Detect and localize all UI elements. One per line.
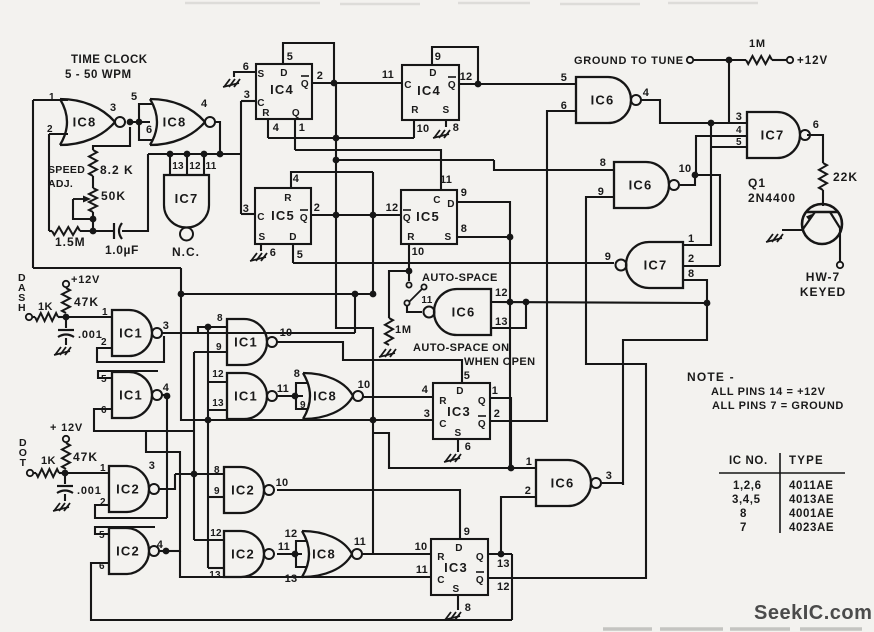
svg-text:Q: Q xyxy=(476,552,484,563)
svg-text:10: 10 xyxy=(358,379,371,391)
nor gate IC8 (pins 5,6 out 4) xyxy=(150,99,157,145)
ground dash cap xyxy=(54,347,71,355)
node osc RC node xyxy=(90,228,97,235)
wire Q to bottom rail xyxy=(511,554,513,620)
flip-flop IC5 left xyxy=(255,188,311,244)
switch contact arm xyxy=(421,284,426,289)
svg-text:13: 13 xyxy=(172,161,184,172)
ground 1M xyxy=(379,349,396,357)
wire mid vertical x373 xyxy=(372,172,374,296)
svg-text:13: 13 xyxy=(497,558,510,570)
svg-text:Q1: Q1 xyxy=(748,176,766,190)
svg-text:1: 1 xyxy=(102,307,108,318)
svg-text:2: 2 xyxy=(314,202,321,214)
wire tune to node xyxy=(693,59,729,61)
node IC1b out xyxy=(164,393,171,400)
svg-text:S: S xyxy=(454,428,461,439)
svg-text:4: 4 xyxy=(273,122,280,134)
svg-text:8.2 K: 8.2 K xyxy=(100,163,134,177)
nand gate IC7 (pins 3,4,5 out 6) xyxy=(747,112,800,158)
wire out to x720 xyxy=(695,175,720,266)
wire IC8c in bracket xyxy=(296,383,308,409)
wire oscillator bottom xyxy=(33,267,181,269)
svg-text:R: R xyxy=(262,108,270,119)
svg-text:8: 8 xyxy=(688,268,695,280)
svg-text:3: 3 xyxy=(736,111,743,123)
wire IC1d pin12 xyxy=(208,381,227,383)
wire IC8d out to R10 xyxy=(362,553,431,555)
wire out4 stub right xyxy=(166,550,180,552)
flip-flop IC5 right xyxy=(401,190,457,244)
svg-text:1: 1 xyxy=(526,456,533,468)
wire switch to gate xyxy=(407,306,422,312)
node pin12 dots xyxy=(507,299,514,306)
wire IC2a pin2 loop xyxy=(95,505,167,518)
wire cap to gnd xyxy=(64,494,66,501)
pot wiper arrow xyxy=(73,198,86,200)
svg-text:4: 4 xyxy=(163,382,170,394)
svg-text:R: R xyxy=(407,232,415,243)
svg-text:4: 4 xyxy=(736,125,742,136)
node IC6mid out node xyxy=(692,172,699,179)
wire IC5R R down xyxy=(408,244,410,281)
svg-text:Q: Q xyxy=(478,419,486,430)
svg-text:13: 13 xyxy=(285,573,298,585)
wire IC4L Qbar to IC4R C xyxy=(312,82,402,84)
svg-text:IC6: IC6 xyxy=(551,476,575,491)
wire rail y294 xyxy=(181,293,373,295)
svg-text:T: T xyxy=(20,457,27,469)
svg-text:IC6: IC6 xyxy=(452,305,476,320)
resistor 1K dash xyxy=(35,313,58,321)
svg-text:SeekIC.com: SeekIC.com xyxy=(754,602,872,624)
svg-text:2: 2 xyxy=(100,497,106,508)
svg-text:.001: .001 xyxy=(77,485,102,497)
svg-text:+12V: +12V xyxy=(71,274,100,286)
svg-text:WHEN OPEN: WHEN OPEN xyxy=(464,356,535,368)
svg-text:3: 3 xyxy=(424,408,431,420)
svg-text:9: 9 xyxy=(461,187,468,199)
svg-text:1: 1 xyxy=(688,233,695,245)
svg-text:IC8: IC8 xyxy=(312,547,336,562)
svg-text:C: C xyxy=(439,419,447,430)
svg-text:IC7: IC7 xyxy=(761,128,785,143)
nand gate IC2 (pins 1,2 out 3) xyxy=(109,466,149,512)
capacitor .001 dot xyxy=(57,485,73,487)
node clock rail dots xyxy=(167,151,174,158)
svg-text:C: C xyxy=(437,575,445,586)
svg-text:8: 8 xyxy=(600,157,607,169)
terminal ground-to-tune xyxy=(687,57,693,63)
terminal DOT xyxy=(27,470,33,476)
svg-text:Q: Q xyxy=(403,213,411,224)
nand gate IC1 (pins 8,9 out 10) xyxy=(227,319,267,365)
node rail294 dots xyxy=(178,291,185,298)
wire IC8a pin1 xyxy=(33,99,68,101)
svg-text:NOTE -: NOTE - xyxy=(687,370,735,384)
wire IC2b pin5 bracket xyxy=(95,527,155,534)
ground IC3B xyxy=(444,612,461,620)
resistor 47K dot xyxy=(62,443,70,469)
wire C11 rail xyxy=(180,551,431,577)
svg-text:IC1: IC1 xyxy=(119,326,143,341)
svg-text:3: 3 xyxy=(606,470,613,482)
wire pin2 drop xyxy=(48,134,50,231)
svg-text:IC NO.: IC NO. xyxy=(729,455,768,467)
svg-text:10: 10 xyxy=(417,123,430,135)
wire IC5L S xyxy=(260,244,262,251)
resistor 1M autospace xyxy=(385,318,393,345)
node IC2d out xyxy=(292,551,299,558)
svg-text:IC5: IC5 xyxy=(271,208,295,223)
svg-text:KEYED: KEYED xyxy=(800,285,846,299)
wire pin3 stub xyxy=(711,122,747,124)
svg-text:9: 9 xyxy=(435,51,442,63)
wire to 1M xyxy=(729,59,746,61)
svg-text:13: 13 xyxy=(495,316,508,328)
svg-text:TIME CLOCK: TIME CLOCK xyxy=(71,54,148,66)
svg-text:D: D xyxy=(456,386,464,397)
svg-text:3: 3 xyxy=(244,89,251,101)
ground IC5L S xyxy=(250,253,267,261)
wire IC6rev pin12 xyxy=(491,302,707,303)
wire cap to gnd xyxy=(65,338,67,345)
wire x336 lower jog xyxy=(336,263,373,554)
svg-text:1.0µF: 1.0µF xyxy=(105,243,139,257)
svg-text:Q: Q xyxy=(476,575,484,586)
node pin8 node2 xyxy=(191,471,198,478)
ground IC4L S xyxy=(223,79,240,87)
wire 1.5M left xyxy=(49,230,52,232)
wire IC7rev pin1 xyxy=(683,147,711,245)
wire IC2c pin9 xyxy=(208,496,224,498)
resistor 47K dash xyxy=(62,288,70,313)
wire IC4L C stub xyxy=(241,100,256,102)
table rule xyxy=(719,472,845,474)
svg-text:12: 12 xyxy=(212,369,224,380)
svg-text:1: 1 xyxy=(49,92,55,103)
wire out3 riser xyxy=(354,294,356,333)
svg-text:D: D xyxy=(289,232,297,243)
svg-text:D: D xyxy=(455,543,463,554)
svg-text:5: 5 xyxy=(561,72,568,84)
svg-text:12: 12 xyxy=(495,287,508,299)
svg-text:4023AE: 4023AE xyxy=(789,522,834,534)
wire IC2d pin12 xyxy=(194,539,224,541)
wire x510 vertical xyxy=(509,237,511,468)
svg-text:IC2: IC2 xyxy=(231,483,255,498)
svg-text:GROUND TO TUNE: GROUND TO TUNE xyxy=(574,55,684,67)
svg-text:7: 7 xyxy=(740,522,747,534)
node autospace tap xyxy=(406,268,413,275)
wire tune drop x729 xyxy=(728,60,730,124)
svg-text:C: C xyxy=(404,80,412,91)
wire cap to rail xyxy=(122,154,148,231)
wire emitter to ground xyxy=(782,229,804,231)
wire clock rail y154 xyxy=(148,153,241,155)
nand gate IC1 (pins 12,13 out 11) xyxy=(227,373,267,419)
wire IC6rev pin13 xyxy=(491,302,526,328)
node pin8-pin12 node xyxy=(704,300,711,307)
wire IC3B Qbar out xyxy=(488,577,646,579)
svg-text:IC3: IC3 xyxy=(447,404,471,419)
svg-text:8: 8 xyxy=(461,223,468,235)
svg-text:ALL PINS 7 = GROUND: ALL PINS 7 = GROUND xyxy=(712,400,844,412)
svg-text:IC2: IC2 xyxy=(116,544,140,559)
wire 50K bottom xyxy=(92,212,94,231)
wire IC2b pin6 xyxy=(91,563,512,620)
svg-text:4: 4 xyxy=(422,384,429,396)
svg-text:5 - 50 WPM: 5 - 50 WPM xyxy=(65,69,132,81)
svg-text:11: 11 xyxy=(421,295,432,306)
wire Q rail y150 to IC5R C xyxy=(295,150,441,190)
resistor 1.5M xyxy=(52,227,80,235)
flip-flop IC3 top xyxy=(433,383,490,439)
svg-text:IC8: IC8 xyxy=(163,115,187,130)
resistor 1M top xyxy=(746,56,772,64)
wire 8.2K top tap xyxy=(93,127,130,150)
svg-text:12: 12 xyxy=(497,581,510,593)
wire IC7rev pin2 xyxy=(683,265,720,267)
wire IC2a out xyxy=(159,474,175,489)
wire IC4L D loop xyxy=(283,43,334,83)
svg-text:10: 10 xyxy=(412,246,425,258)
wire 8.2K to 50K xyxy=(92,176,94,188)
svg-text:R: R xyxy=(439,396,447,407)
wire IC6bot out xyxy=(602,483,623,485)
svg-text:1K: 1K xyxy=(38,301,53,313)
svg-text:6: 6 xyxy=(813,119,820,131)
wire IC6mid out xyxy=(680,175,695,185)
nand gate IC6 (pins 8,9 out 10) xyxy=(614,162,669,208)
node R rail xyxy=(333,135,340,142)
svg-text:8: 8 xyxy=(294,368,301,380)
wire IC4R Qbar to IC6 pin5 xyxy=(459,83,576,85)
wire x711 down xyxy=(710,123,712,147)
wire IC6bot pin2 xyxy=(501,497,536,554)
wire IC8d in bracket xyxy=(296,541,307,567)
wire x181 vertical xyxy=(181,268,433,420)
svg-text:47K: 47K xyxy=(73,450,98,464)
wire 1.5M right to cap xyxy=(80,230,114,232)
wire wiper short xyxy=(73,199,93,219)
svg-text:6: 6 xyxy=(101,405,107,416)
wire dot cap drop xyxy=(64,473,66,484)
svg-text:D: D xyxy=(280,68,288,79)
switch contact top xyxy=(406,282,411,287)
svg-text:2: 2 xyxy=(101,337,107,348)
wire IC1a pin2 loop xyxy=(97,336,164,362)
nor gate IC8 (pins 1,2 out 3) xyxy=(60,99,67,145)
wire IC6bot pin1 rail xyxy=(373,433,536,468)
svg-text:ADJ.: ADJ. xyxy=(48,178,73,190)
nand gate IC6 (pins 5,6 out 4) xyxy=(576,77,631,123)
svg-text:50K: 50K xyxy=(101,189,126,203)
node IC5R S node xyxy=(507,234,514,241)
nand gate IC1 (pins 1,2 out 3) xyxy=(112,310,152,356)
wire IC8a out to IC8b xyxy=(128,121,150,123)
terminal HW-7 xyxy=(837,262,843,268)
decor scan smudge bottom xyxy=(603,627,862,631)
svg-text:6: 6 xyxy=(465,441,472,453)
node IC2b out xyxy=(163,548,170,555)
node x336 y160 xyxy=(333,157,340,164)
svg-text:HW-7: HW-7 xyxy=(806,270,840,284)
node IC8a out dots xyxy=(127,119,134,126)
decor scan smudge top xyxy=(185,3,758,4)
terminal DASH xyxy=(26,314,32,320)
node tune xyxy=(726,57,733,64)
svg-text:1K: 1K xyxy=(41,455,56,467)
svg-text:9: 9 xyxy=(605,251,612,263)
nand gate IC7 reversed (in 9, pins 1,2,8) xyxy=(626,242,683,288)
wire out4 down xyxy=(166,396,168,518)
svg-text:11: 11 xyxy=(277,383,289,395)
svg-text:Q: Q xyxy=(300,213,308,224)
wire IC3T Q out xyxy=(490,398,511,468)
svg-text:11: 11 xyxy=(354,536,366,548)
svg-text:R: R xyxy=(437,552,445,563)
svg-text:.001: .001 xyxy=(78,329,103,341)
svg-text:5: 5 xyxy=(464,370,471,382)
wire IC5L C stub xyxy=(241,213,255,215)
svg-text:6: 6 xyxy=(146,124,153,136)
wire x208 lower xyxy=(207,421,209,568)
svg-text:AUTO-SPACE: AUTO-SPACE xyxy=(422,272,498,284)
svg-text:D: D xyxy=(447,199,455,210)
svg-text:2: 2 xyxy=(688,253,695,265)
svg-text:C: C xyxy=(433,195,441,206)
svg-text:AUTO-SPACE ON: AUTO-SPACE ON xyxy=(413,342,509,354)
svg-text:5: 5 xyxy=(101,374,107,385)
svg-text:+ 12V: + 12V xyxy=(50,422,83,434)
svg-text:22K: 22K xyxy=(833,170,858,184)
wire IC4L S xyxy=(234,72,256,77)
svg-text:IC1: IC1 xyxy=(119,388,143,403)
table divider xyxy=(779,453,781,533)
wire IC5L D down xyxy=(292,244,294,263)
wire IC8a pin2 xyxy=(49,133,68,135)
svg-text:5: 5 xyxy=(99,530,105,541)
svg-text:4: 4 xyxy=(293,173,300,185)
svg-text:8: 8 xyxy=(453,122,460,134)
wire dot node to IC2 xyxy=(65,472,109,474)
svg-text:5: 5 xyxy=(287,51,294,63)
node dot node xyxy=(62,470,69,477)
svg-text:4: 4 xyxy=(157,539,164,551)
node pot bottom xyxy=(90,216,97,223)
wire IC7rev pin8 xyxy=(623,280,707,485)
svg-text:N.C.: N.C. xyxy=(172,245,200,259)
svg-text:Q: Q xyxy=(478,396,486,407)
svg-text:10: 10 xyxy=(679,163,692,175)
wire IC5R S stub xyxy=(457,236,510,238)
capacitor 1.0uF xyxy=(113,223,115,239)
terminal +12V dash xyxy=(63,281,69,287)
ground IC4R S xyxy=(433,130,450,138)
capacitor .001 dash xyxy=(58,329,74,331)
svg-text:4: 4 xyxy=(201,98,208,110)
wire IC4L R down xyxy=(267,119,269,138)
wire 22K to base xyxy=(822,190,824,206)
IC7 pin stubs xyxy=(169,154,171,175)
svg-text:Q: Q xyxy=(292,108,300,119)
wire 1M to terminal xyxy=(772,59,787,61)
resistor 22K xyxy=(819,163,827,190)
node IC4R Qbar xyxy=(475,81,482,88)
flip-flop IC3 bottom xyxy=(431,539,488,595)
svg-text:TYPE: TYPE xyxy=(789,455,824,467)
wire 1K stub xyxy=(33,472,36,474)
ground dot cap xyxy=(53,503,70,511)
node pin8 node xyxy=(205,324,212,331)
switch arm xyxy=(408,288,423,303)
nand gate IC7 (pins 13,12,11, N.C. out) xyxy=(164,175,209,228)
nand gate IC1 (pins 5,6 out 4) xyxy=(112,372,152,418)
svg-text:12: 12 xyxy=(210,528,222,539)
nand gate IC6 auto-space (in 11, pins 12,13) xyxy=(434,289,491,335)
svg-text:IC5: IC5 xyxy=(416,209,440,224)
svg-text:13: 13 xyxy=(209,570,221,581)
nand gate IC2 (pins 8,9 out 10) xyxy=(224,467,264,513)
svg-text:S: S xyxy=(257,69,264,80)
wire IC5L R loop xyxy=(291,172,373,188)
nand gate IC2 (pins 5,6 out 4) xyxy=(109,528,149,574)
svg-text:11: 11 xyxy=(206,161,217,172)
svg-text:8: 8 xyxy=(740,508,747,520)
svg-text:12: 12 xyxy=(285,528,298,540)
svg-text:13: 13 xyxy=(212,398,224,409)
svg-text:H: H xyxy=(18,302,26,314)
svg-text:4011AE: 4011AE xyxy=(789,480,834,492)
flip-flop IC4 left xyxy=(256,64,312,119)
svg-text:11: 11 xyxy=(440,174,452,186)
wire rail y160 xyxy=(336,159,494,161)
wire IC1c pin9 xyxy=(194,351,227,353)
wire IC1d pin13 xyxy=(208,409,227,411)
svg-text:S: S xyxy=(452,584,459,595)
node IC1d out xyxy=(292,393,299,400)
svg-text:S: S xyxy=(258,232,265,243)
svg-text:3: 3 xyxy=(149,460,156,472)
svg-text:3: 3 xyxy=(110,102,117,114)
svg-text:IC7: IC7 xyxy=(644,258,668,273)
svg-text:9: 9 xyxy=(464,526,471,538)
svg-text:IC2: IC2 xyxy=(231,547,255,562)
wire 1K to node xyxy=(32,316,35,318)
svg-text:IC1: IC1 xyxy=(234,389,258,404)
svg-text:IC2: IC2 xyxy=(116,482,140,497)
svg-text:1: 1 xyxy=(492,385,499,397)
svg-text:SPEED: SPEED xyxy=(48,164,85,176)
svg-text:1M: 1M xyxy=(749,38,766,50)
node IC7R pin3 node xyxy=(708,120,715,127)
ground IC3T xyxy=(444,454,461,462)
resistor 8.2K xyxy=(89,150,97,176)
wire long rail y263 to IC7rev in9 xyxy=(293,262,614,264)
svg-text:1: 1 xyxy=(100,463,106,474)
svg-text:11: 11 xyxy=(416,564,428,576)
svg-text:IC6: IC6 xyxy=(591,93,615,108)
wire IC4R R stub xyxy=(413,120,415,138)
svg-text:11: 11 xyxy=(278,541,290,553)
wire IC8c out to R4 xyxy=(363,396,433,398)
svg-text:IC8: IC8 xyxy=(73,115,97,130)
wire IC2d pin13 xyxy=(208,567,224,569)
wire pin5/6 bracket xyxy=(139,104,152,140)
wire IC3B Q out xyxy=(488,553,512,555)
wire IC6top pin6 feed xyxy=(489,111,576,421)
